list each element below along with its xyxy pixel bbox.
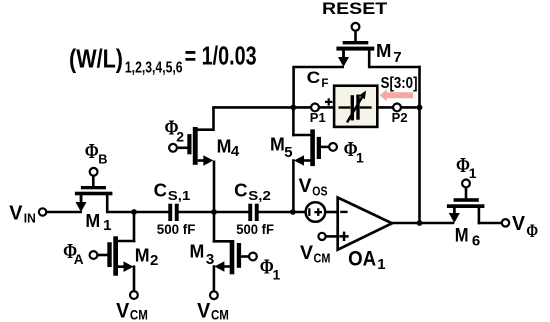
svg-text:= 1/0.03: = 1/0.03 (185, 43, 257, 71)
svg-text:1,2,3,4,5,6: 1,2,3,4,5,6 (125, 60, 183, 77)
svg-text:P2: P2 (392, 110, 408, 125)
svg-text:C: C (307, 68, 321, 87)
svg-text:Φ: Φ (85, 139, 99, 163)
svg-text:OS: OS (312, 184, 327, 198)
svg-text:CM: CM (211, 307, 229, 322)
svg-text:F: F (321, 78, 328, 90)
svg-text:2: 2 (150, 252, 158, 269)
svg-text:M: M (376, 40, 391, 61)
svg-text:M: M (270, 133, 285, 154)
svg-text:M: M (85, 210, 100, 231)
svg-text:3: 3 (206, 251, 214, 268)
svg-text:V: V (9, 202, 23, 224)
svg-text:2: 2 (176, 128, 184, 144)
svg-text:1: 1 (273, 267, 281, 283)
svg-text:Φ: Φ (526, 221, 538, 242)
svg-text:OA: OA (348, 247, 376, 271)
svg-text:1: 1 (356, 150, 364, 166)
svg-text:500 fF: 500 fF (157, 222, 196, 237)
svg-text:M: M (190, 241, 205, 262)
svg-text:M: M (455, 225, 469, 247)
svg-text:S[3:0]: S[3:0] (381, 75, 418, 92)
svg-text:A: A (74, 252, 84, 267)
svg-text:V: V (116, 299, 129, 322)
svg-text:B: B (98, 152, 107, 167)
svg-text:1: 1 (377, 256, 385, 273)
svg-text:C: C (154, 180, 167, 201)
svg-text:CM: CM (130, 307, 148, 322)
svg-text:P1: P1 (310, 110, 326, 125)
svg-text:6: 6 (472, 232, 480, 249)
svg-text:V: V (197, 299, 210, 322)
svg-text:V: V (512, 213, 526, 235)
svg-text:1: 1 (103, 217, 111, 234)
svg-text:(W/L): (W/L) (69, 44, 123, 74)
svg-text:M: M (217, 136, 232, 157)
svg-text:V: V (300, 242, 313, 264)
svg-text:500 fF: 500 fF (236, 222, 274, 237)
svg-text:4: 4 (231, 143, 240, 160)
svg-text:V: V (299, 175, 312, 197)
svg-text:1: 1 (469, 165, 477, 181)
svg-text:S,2: S,2 (248, 189, 271, 203)
svg-text:5: 5 (284, 144, 292, 161)
svg-text:M: M (135, 244, 150, 265)
svg-text:CM: CM (314, 252, 331, 266)
svg-text:7: 7 (393, 49, 401, 66)
svg-text:S,1: S,1 (168, 189, 191, 203)
svg-text:RESET: RESET (322, 0, 387, 18)
svg-text:C: C (234, 180, 247, 201)
svg-text:IN: IN (24, 211, 36, 225)
